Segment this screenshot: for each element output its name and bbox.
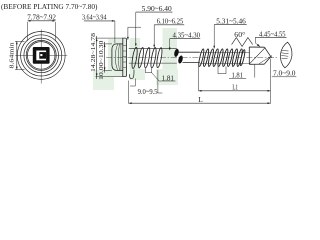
dim 1.81 main pitch bbox=[217, 67, 219, 74]
centerline bbox=[106, 56, 277, 58]
under-head deep thread hook bbox=[129, 70, 134, 79]
head top view: crosshair vertical bbox=[40, 30, 42, 84]
svg-text:4.45~4.55: 4.45~4.55 bbox=[259, 30, 286, 38]
dim 9.0~9.5 bbox=[134, 79, 136, 87]
green highlight: head side view interior bbox=[108, 39, 127, 77]
coil loop 3 bbox=[144, 47, 151, 68]
svg-text:5.90~6.40: 5.90~6.40 bbox=[142, 5, 172, 13]
side view: dome inner curve 2 bbox=[118, 44, 119, 70]
side view: flange disk bbox=[123, 38, 127, 76]
main thread root lines bbox=[200, 51, 249, 53]
side view: dome right shell line bbox=[120, 44, 122, 70]
side view: dome inner curve bbox=[115, 44, 118, 70]
svg-text:8.64min: 8.64min bbox=[9, 42, 16, 69]
green highlight: block below side view bbox=[93, 70, 114, 90]
drill point body bbox=[249, 47, 264, 64]
main thread coil loops bbox=[198, 49, 246, 67]
dimension 3.64~3.94 shelf bbox=[84, 20, 115, 22]
drill point flute diagonal bbox=[250, 48, 266, 64]
svg-text:10.00~10.30: 10.00~10.30 bbox=[98, 40, 105, 80]
dim 7.0~9.0 bbox=[254, 65, 256, 78]
svg-text:3.64~3.94: 3.64~3.94 bbox=[82, 14, 107, 22]
callout 5.90~6.40 bbox=[136, 11, 173, 13]
svg-text:9.0~9.5: 9.0~9.5 bbox=[138, 87, 158, 96]
dimension 3.64~3.94 right ext corner bbox=[127, 27, 129, 39]
arrow blob upper bbox=[173, 48, 179, 57]
coil loop 4 bbox=[150, 47, 157, 68]
svg-text:1.81: 1.81 bbox=[232, 71, 244, 79]
head top view: serration circle bbox=[21, 35, 62, 76]
under-head coil thread loop 1 bbox=[131, 47, 138, 69]
svg-text:L: L bbox=[198, 95, 203, 104]
callout 5.31~5.46 bbox=[214, 24, 247, 26]
dimension 7.78~7.92 line bbox=[28, 20, 56, 22]
drill point end view lens bbox=[279, 42, 293, 69]
svg-text:5.31~5.46: 5.31~5.46 bbox=[216, 18, 246, 26]
side view: flange serration lines bbox=[123, 45, 127, 47]
square recess outer ring bbox=[33, 47, 50, 64]
arrow blob lower bbox=[177, 55, 183, 64]
head top view: crosshair horizontal bbox=[15, 54, 67, 56]
under-head core cylinder bbox=[129, 48, 177, 50]
svg-text:7.78~7.92: 7.78~7.92 bbox=[27, 14, 56, 22]
svg-text:7.0~9.0: 7.0~9.0 bbox=[273, 69, 296, 77]
callout 6.10~6.25 bbox=[154, 24, 184, 26]
green highlight: under-head thread patch bbox=[130, 38, 141, 80]
plain shank bbox=[179, 51, 200, 53]
green highlight: strip under coils bbox=[131, 69, 145, 80]
tip extension line bbox=[270, 59, 272, 104]
dim 1.81 under-head pitch bbox=[144, 68, 146, 72]
svg-text:6.10~6.25: 6.10~6.25 bbox=[157, 18, 184, 26]
dimension 14.28~14.78 bbox=[95, 37, 122, 39]
dimension 10.00~10.30 bbox=[103, 43, 112, 45]
dimension 8.64min line bbox=[16, 41, 18, 69]
head top view: dome base circle bbox=[27, 42, 55, 70]
square recess center boss bbox=[39, 52, 46, 59]
svg-text:14.28~14.78: 14.28~14.78 bbox=[90, 32, 97, 72]
coil loop 2 bbox=[137, 47, 144, 68]
end view web lines bbox=[282, 49, 289, 52]
svg-text:1.81: 1.81 bbox=[162, 74, 175, 82]
head top view: washer face circle bbox=[24, 38, 59, 73]
callout 4.35~4.30 bbox=[170, 38, 201, 40]
head top view: dome edge circle bbox=[26, 40, 56, 70]
green highlight: vertical band at shank bbox=[163, 28, 178, 85]
callout 4.45~4.55 bbox=[255, 36, 286, 38]
svg-text:(BEFORE PLATING 7.70~7.80): (BEFORE PLATING 7.70~7.80) bbox=[1, 2, 98, 11]
head top view: outer flange circle bbox=[17, 32, 65, 80]
green highlight: behind 1.81 label left bbox=[156, 69, 178, 85]
coil loop 5 bbox=[156, 47, 163, 68]
dim L bbox=[128, 81, 130, 104]
drill point cone bbox=[264, 47, 271, 64]
side view: dome outline bbox=[112, 44, 123, 71]
svg-text:60°: 60° bbox=[234, 30, 245, 39]
svg-text:4.35~4.30: 4.35~4.30 bbox=[173, 32, 201, 40]
svg-text:L1: L1 bbox=[232, 83, 238, 91]
dim L1 bbox=[198, 66, 200, 91]
thread profile detail 60 deg bbox=[232, 38, 253, 47]
